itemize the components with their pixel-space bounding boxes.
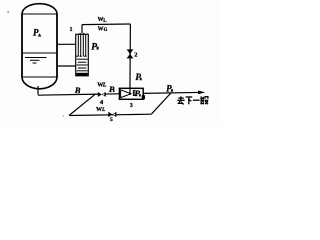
drop line from top pipe to box 3 <box>129 24 132 95</box>
text: qu xia yi duan (to next section) <box>177 96 208 104</box>
ejector box 3 <box>119 88 143 99</box>
valve 4 <box>98 92 106 97</box>
label PB <box>91 42 99 52</box>
tank outlet drop <box>37 86 39 95</box>
tank bottom dome <box>22 77 57 89</box>
gauge tube feet <box>76 55 78 57</box>
svg-text:P: P <box>135 88 141 98</box>
lower tap pipe tank to gauge <box>57 65 76 67</box>
svg-text:P: P <box>91 42 97 52</box>
svg-text:P: P <box>166 84 172 94</box>
tank left wall <box>21 14 23 78</box>
svg-text:1: 1 <box>70 27 73 33</box>
bypass diagonal left <box>69 94 95 115</box>
svg-text:3: 3 <box>130 103 133 109</box>
level hatch 2 <box>30 59 40 61</box>
tank A shell (vessel) <box>22 4 57 89</box>
char xia <box>186 96 193 98</box>
char duan <box>200 96 202 104</box>
label Wt above valve 4 <box>97 83 107 89</box>
valve 2 <box>127 49 134 58</box>
level hatch 3 <box>33 62 37 64</box>
label WL above top pipe <box>98 17 107 24</box>
svg-text:L: L <box>102 83 107 89</box>
char qu <box>180 96 182 100</box>
label WL above valve 5 <box>96 107 106 113</box>
label WG under top pipe <box>98 26 108 33</box>
label P1 <box>75 85 81 95</box>
label P2 <box>109 84 115 94</box>
speck top-left <box>8 12 9 13</box>
svg-text:P: P <box>75 85 81 95</box>
char yi <box>193 99 200 101</box>
label P4 <box>166 84 173 94</box>
label PA <box>33 27 41 37</box>
svg-text:2: 2 <box>134 52 137 59</box>
svg-text:G: G <box>104 28 108 33</box>
bypass diagonal right <box>151 93 171 114</box>
svg-text:L: L <box>101 107 106 113</box>
svg-text:L: L <box>103 19 106 24</box>
gauge inner tube lines <box>77 35 79 57</box>
svg-text:4: 4 <box>100 99 104 106</box>
tank top chord <box>22 13 57 15</box>
main pipe left section <box>38 94 98 95</box>
tank bottom chord <box>22 76 57 78</box>
tank right wall <box>56 14 58 78</box>
gauge tube caps <box>78 34 80 35</box>
throat bar in box <box>133 91 135 96</box>
nozzle triangle in box <box>121 90 131 98</box>
label P3 <box>135 72 141 82</box>
gauge dark bottom band <box>76 73 87 76</box>
liquid level line in tank <box>23 52 57 54</box>
top pipe horizontal <box>82 23 130 26</box>
svg-text:P: P <box>135 72 141 82</box>
level gauge 1 body <box>76 34 89 76</box>
upper tap pipe tank to gauge <box>57 43 76 45</box>
arrowhead to next stage <box>198 91 205 95</box>
bypass bottom line <box>69 114 151 115</box>
label P inside box <box>135 88 141 98</box>
gauge liquid dashes <box>77 58 88 60</box>
riser pipe from gauge <box>81 25 83 33</box>
main pipe mid section <box>105 93 119 95</box>
svg-text:5: 5 <box>110 117 113 123</box>
svg-text:P: P <box>33 27 39 37</box>
level hatch 1 <box>25 57 47 59</box>
dark square box bottom right <box>142 95 145 99</box>
tank top dome <box>22 4 57 14</box>
valve 5 <box>108 112 116 117</box>
main pipe right section with arrow shaft <box>143 91 199 94</box>
svg-text:P: P <box>109 84 115 94</box>
